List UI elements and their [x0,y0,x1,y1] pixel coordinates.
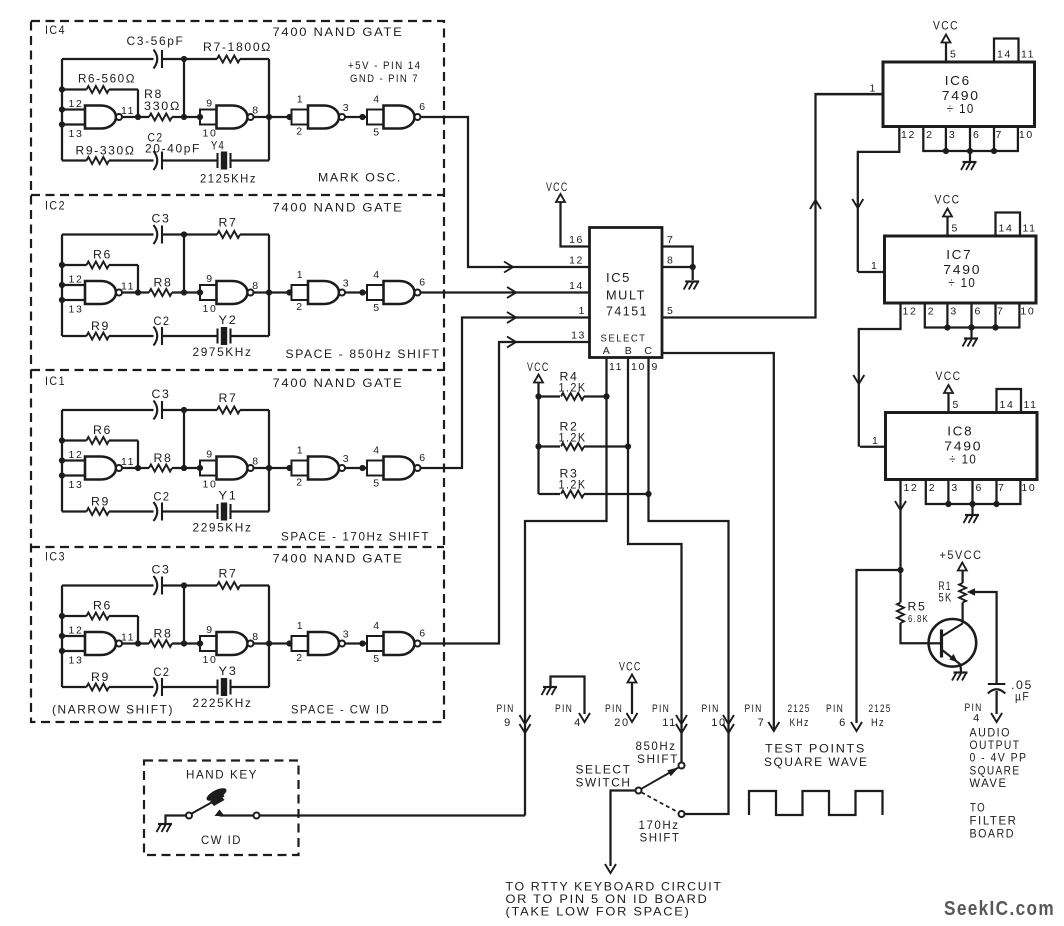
wire IC4 feedback right vertical [268,59,270,161]
hand key fixed contact triangle [215,810,225,817]
crystal IC3 Y3 [216,680,218,695]
wire IC1 pin12 input [62,459,85,461]
svg-text:11: 11 [662,717,677,729]
op IC5 MULT 74151 box [590,228,663,358]
svg-text:÷ 10: ÷ 10 [947,101,975,116]
resistor IC1 R6 [62,439,87,441]
svg-text:9: 9 [652,361,659,373]
svg-text:C2: C2 [154,314,171,328]
resistor R4 1.2K [539,395,561,397]
nand-gate IC3c pins 1,2 -> 3 input bracket [292,636,309,651]
capacitor IC2 C3 [154,225,158,244]
node VCC/R4 junction [535,393,541,399]
node IC3 R6 tap junction [59,613,65,619]
wire IC8 pin12 to PIN 6 test point [857,570,901,723]
svg-text:÷ 10: ÷ 10 [949,452,977,467]
hand key knob [205,786,229,804]
svg-text:10: 10 [203,479,218,491]
resistor IC2 R9 [87,333,110,340]
square wave symbol [749,791,883,815]
svg-text:SeekIC.com: SeekIC.com [944,897,1055,920]
node IC8 output junction [897,567,903,573]
svg-text:7: 7 [667,234,674,246]
svg-text:Hz: Hz [871,717,885,729]
svg-text:20: 20 [614,717,629,729]
svg-text:SQUARE: SQUARE [970,766,1021,778]
wire IC3 R8 to gate2 input [172,642,200,644]
svg-text:9: 9 [206,624,213,636]
svg-text:IC8: IC8 [947,424,973,439]
svg-text:13: 13 [69,128,84,140]
svg-text:9: 9 [504,717,512,729]
svg-text:12: 12 [901,129,916,141]
flow arrow down to IC8 [853,375,864,384]
wire IC2 feedback left vertical [61,235,63,337]
svg-text:8: 8 [252,631,259,643]
svg-text:R6-560Ω: R6-560Ω [78,72,136,86]
capacitor .05 uF [988,683,1006,685]
svg-text:2: 2 [296,477,303,489]
wire IC2 R8 to gate2 input [172,291,200,293]
node IC7 pin 6 bus junction [968,324,974,330]
svg-text:PIN: PIN [826,703,844,715]
crystal IC4 Y4 [216,153,218,168]
svg-text:C2: C2 [154,665,171,679]
svg-text:8: 8 [667,255,674,267]
svg-text:1.2K: 1.2K [559,478,587,492]
wire hand key to PIN 9 line [220,814,526,816]
svg-text:4: 4 [574,717,582,729]
svg-text:3: 3 [950,306,957,318]
svg-text:2225KHz: 2225KHz [193,696,253,710]
wire emitter to ground [959,665,962,673]
node IC1 gate1 output junction [135,465,141,471]
arrow to RTTY keyboard [605,864,616,873]
nand-gate IC3b pins 9,10 -> 8 input bracket [200,636,217,651]
svg-text:12: 12 [69,274,84,286]
wire ground to PIN 4 [551,677,585,715]
node IC3 pin12 junction [59,633,65,639]
flow arrow down to IC7 [852,199,863,208]
svg-text:11: 11 [121,281,135,293]
wire IC2 feedback right vertical [268,235,270,337]
svg-text:A: A [603,345,612,357]
svg-text:4: 4 [373,269,380,281]
resistor IC2 R8 [149,289,172,296]
svg-text:7: 7 [997,306,1004,318]
wire IC5 select row to test point PIN 7 [662,353,774,731]
node IC1 gate2 input junction [197,465,203,471]
wire IC3 top loop middle segment [162,584,217,586]
svg-text:10: 10 [1021,482,1036,494]
nand-gate IC1b pins 9,10 -> 8 input bracket [200,461,217,476]
arrow PIN 7 [768,722,779,731]
node IC3 pin13 junction [59,648,65,654]
node IC7 pin 3 bus junction [944,324,950,330]
nand-gate IC4d body [384,106,415,129]
svg-text:5: 5 [952,223,959,235]
resistor IC4 R7 [217,56,240,63]
wire VCC to PIN 20 [631,683,633,715]
node R2 to line B junction [625,443,631,449]
svg-text:PIN: PIN [652,703,670,715]
wire IC7 pin 12 to IC8 pin 1 [859,303,901,447]
wire IC3 gate1 output [122,642,149,644]
node IC7 pin 7 bus junction [992,324,998,330]
svg-text:850Hz: 850Hz [636,739,677,753]
svg-text:2: 2 [929,482,936,494]
node IC4 pin12 junction [59,106,65,112]
node IC3 gate2 output junction [266,640,272,646]
svg-text:C3: C3 [152,563,171,577]
svg-text:11: 11 [121,456,135,468]
svg-text:11: 11 [1021,49,1035,61]
svg-text:6: 6 [419,452,426,464]
svg-text:+5VCC: +5VCC [940,550,983,562]
node IC1 R8/C3 junction [181,465,187,471]
svg-text:1: 1 [579,305,586,317]
svg-text:PIN: PIN [605,703,623,715]
node R4 to line A junction [603,393,609,399]
svg-text:VCC: VCC [619,662,642,674]
wire IC8 pin 14 to pin 11 loop [997,389,1022,413]
resistor IC1 R7 [217,407,240,414]
svg-text:6.8K: 6.8K [908,614,929,625]
wire IC6 pin 12 to IC7 pin 1 [858,127,900,273]
svg-text:R9: R9 [91,319,110,333]
counter IC8 7490 box [886,413,1038,480]
svg-text:R9: R9 [91,495,110,509]
flow arrow on IC5 pin1 wire [507,312,516,323]
svg-text:14: 14 [999,223,1014,235]
capacitor IC3 C2 [154,678,158,697]
svg-text:(NARROW SHIFT): (NARROW SHIFT) [52,703,174,717]
svg-text:IC6: IC6 [945,73,971,88]
svg-text:2295KHz: 2295KHz [193,521,253,535]
resistor IC4 R6 [62,88,87,90]
svg-text:2125KHz: 2125KHz [200,172,257,186]
wire IC4 C2 to crystal [162,159,218,161]
svg-text:5K: 5K [939,591,953,605]
svg-text:7: 7 [758,717,766,729]
wire IC3 C2 to crystal [162,686,218,688]
wire IC4 R8 to gate2 input [172,116,200,118]
svg-text:R6: R6 [93,423,112,437]
node IC4 gate1 output junction [135,114,141,120]
hand key lever arm [191,796,224,814]
svg-text:Y2: Y2 [219,313,238,327]
node IC2 pin13 junction [59,297,65,303]
svg-text:÷ 10: ÷ 10 [948,275,976,290]
ground for PIN 4 [543,686,557,688]
wire IC1 gate3 output [345,467,367,469]
wire IC2 bottom loop left segment [62,335,87,337]
arrow PIN 6 [851,722,862,731]
svg-text:R8: R8 [154,276,173,290]
wire IC3 output to IC5 pin 13 [421,342,590,644]
svg-text:2125: 2125 [869,703,892,715]
svg-text:3: 3 [951,482,958,494]
svg-text:4: 4 [973,713,981,725]
node R3 to line C junction [645,491,651,497]
svg-text:1: 1 [297,269,304,281]
wire IC7 pin 1 input [858,271,885,273]
svg-text:10: 10 [1020,306,1035,318]
nand-gate IC4b pins 9,10 -> 8 input bracket [200,110,217,125]
svg-text:11: 11 [121,105,135,117]
resistor IC3 R7 [217,582,240,589]
wire IC3 pin12 input [62,635,85,637]
svg-text:PIN: PIN [497,703,515,715]
svg-text:5: 5 [373,478,380,490]
svg-text:6: 6 [419,277,426,289]
wire IC4 top loop right segment [240,58,269,60]
resistor IC1 R9 [87,508,110,515]
svg-text:4: 4 [373,445,380,457]
ground at hand key [158,823,172,825]
svg-text:10: 10 [203,303,218,315]
svg-text:2975KHz: 2975KHz [193,345,253,359]
wire IC2 gate2 output [254,291,292,293]
switch SELECT contact 850Hz [679,763,685,769]
wire IC4 C3 node to gate2 input vertical [183,59,185,117]
svg-text:MARK OSC.: MARK OSC. [318,171,402,185]
svg-text:B: B [625,345,634,357]
wire hand key ground to contact [166,816,187,825]
svg-text:R6: R6 [93,248,112,262]
svg-text:74151: 74151 [606,304,648,319]
svg-text:12: 12 [904,482,919,494]
double arrow on PIN 11 line [676,715,687,724]
wire IC3 feedback left vertical [61,586,63,688]
wire IC4 output to IC5 pin 12 [421,117,590,267]
wire IC3 gate3 output [345,642,367,644]
node IC3 gate3 output junction [359,640,365,646]
wire IC8 bottom pins to ground bus [926,480,1021,505]
node IC1 gate2 output junction [266,465,272,471]
svg-text:3: 3 [343,102,350,114]
wire IC3 top loop left segment [62,584,154,586]
wire IC4 bottom loop left segment [62,159,87,161]
svg-text:9: 9 [206,273,213,285]
transistor Q1 NPN [929,619,977,667]
counter IC6 7490 box [883,62,1035,127]
svg-text:13: 13 [69,304,84,316]
wire IC2 gate3 output [345,291,367,293]
wire IC2 gate1 output [122,291,149,293]
wire R1 to +5VCC [961,570,963,583]
node IC2 gate3 output junction [359,289,365,295]
switch SELECT pole contact [636,788,642,794]
svg-text:2125: 2125 [788,703,811,715]
capacitor IC4 C2 [154,151,158,170]
wire IC1 bottom loop left segment [62,510,87,512]
wire IC5 pin 7 to pin 8 node [662,247,693,268]
svg-text:7: 7 [996,129,1003,141]
svg-text:R7: R7 [219,567,238,581]
svg-text:11: 11 [1023,223,1037,235]
resistor R3 1.2K [539,493,561,495]
svg-text:1.2K: 1.2K [559,381,587,395]
node IC4 C3/R7 junction [181,56,187,62]
svg-text:3: 3 [343,278,350,290]
svg-text:5: 5 [373,302,380,314]
svg-text:0 - 4V PP: 0 - 4V PP [970,753,1028,765]
svg-text:R9: R9 [91,670,110,684]
svg-text:SELECT: SELECT [576,763,632,777]
svg-text:R8: R8 [154,451,173,465]
svg-text:11: 11 [609,361,623,373]
wire IC3 bottom loop mid segment [109,686,154,688]
node IC6 pin 7 bus junction [991,148,997,154]
svg-text:6: 6 [839,717,847,729]
svg-text:12: 12 [903,306,918,318]
node IC3 gate1 output junction [135,640,141,646]
wire IC4 top loop left segment [62,58,154,60]
ground at IC5 pin 8 [685,280,699,282]
crystal IC2 Y2 [216,329,218,344]
svg-text:C2: C2 [154,490,171,504]
wire IC7 pin 14 to pin 11 loop [996,213,1021,237]
nand-gate IC1d pins 4,5 -> 6 input bracket [367,461,384,476]
svg-text:1: 1 [297,620,304,632]
node IC2 C3/R7 junction [181,231,187,237]
wire IC1 top loop middle segment [162,409,217,411]
nand-gate IC3b body [217,632,248,655]
wire IC5 pin 5 output to IC6 pin 1 [662,94,883,318]
svg-text:3: 3 [949,129,956,141]
wire IC1 feedback right vertical [268,410,270,512]
svg-text:SHIFT: SHIFT [640,831,681,845]
ground at transistor emitter [954,671,968,673]
svg-text:1: 1 [870,82,877,94]
svg-text:PIN: PIN [745,703,763,715]
svg-text:IC1: IC1 [45,376,66,388]
wire collector to R1 [961,603,963,624]
svg-text:SWITCH: SWITCH [576,776,632,790]
svg-text:R6: R6 [93,599,112,613]
svg-text:5: 5 [950,49,957,61]
svg-text:6: 6 [419,628,426,640]
svg-text:2: 2 [296,652,303,664]
wire IC3 crystal to right vertical [231,686,270,688]
nand-gate IC3c body [308,632,339,655]
svg-text:10: 10 [203,654,218,666]
nand-gate IC2b body [217,281,248,304]
svg-text:WAVE: WAVE [970,778,1008,790]
wire IC3 bottom loop left segment [62,686,87,688]
svg-text:OUTPUT: OUTPUT [970,740,1021,752]
svg-text:330Ω: 330Ω [144,99,181,113]
svg-text:1.2K: 1.2K [559,431,587,445]
node IC3 gate2 input junction [197,640,203,646]
hand key output contact [254,813,260,819]
svg-text:14: 14 [569,280,584,292]
svg-text:11: 11 [121,632,135,644]
svg-text:7400 NAND GATE: 7400 NAND GATE [273,201,404,215]
svg-text:BOARD: BOARD [970,829,1016,841]
wire VCC to IC7 pin 5 [946,217,948,237]
node IC2 gate3 input junction [286,289,292,295]
svg-text:6: 6 [975,306,982,318]
hand key pivot contact [186,813,192,819]
svg-text:6: 6 [973,129,980,141]
svg-text:R9-330Ω: R9-330Ω [76,144,136,158]
svg-text:SPACE - 850Hz SHIFT: SPACE - 850Hz SHIFT [286,347,441,361]
wire VCC vertical for R4/R2/R3 [537,383,539,495]
wire IC1 top loop left segment [62,409,154,411]
wire IC6 bottom pins to ground bus [923,127,1018,152]
wire IC3 top loop right segment [240,584,269,586]
flow arrow on IC5 pin13 wire [507,337,516,348]
wire IC1 pin13 input [62,474,85,476]
switch blade to 850Hz position [641,768,678,789]
switch contact 170Hz [679,811,685,817]
wire IC1 top loop right segment [240,409,269,411]
wire IC1 bottom loop mid segment [109,510,154,512]
double arrow on PIN 10 line [723,715,734,724]
resistor IC1 R8 [149,465,172,472]
node IC2 pin12 junction [59,282,65,288]
svg-text:PIN: PIN [702,703,720,715]
node IC6 pin 3 bus junction [943,148,949,154]
wire VCC to IC5 pin 16 [561,202,590,247]
arrow PIN 4 [579,713,590,722]
svg-text:IC7: IC7 [946,247,972,262]
svg-text:IC4: IC4 [45,25,66,37]
svg-text:VCC: VCC [935,195,961,207]
wire IC5 pin 8 to ground [662,267,693,280]
node IC2 gate1 output junction [135,289,141,295]
svg-text:+5V - PIN 14: +5V - PIN 14 [348,60,422,72]
resistor IC3 R9 [87,684,110,691]
node IC3 gate3 input junction [286,640,292,646]
switch dashed blade to 170Hz position [641,792,678,812]
svg-text:GND - PIN 7: GND - PIN 7 [350,73,419,85]
svg-text:VCC: VCC [933,21,959,33]
capacitor IC1 C2 [154,502,158,521]
node IC2 R6 tap junction [59,262,65,268]
svg-text:14: 14 [1000,399,1015,411]
wire IC2 bottom loop mid segment [109,335,154,337]
svg-text:3: 3 [343,629,350,641]
svg-text:10: 10 [1019,129,1034,141]
resistor IC4 R9 [87,157,110,164]
ground below IC7 [970,328,972,339]
node IC2 gate2 input junction [197,289,203,295]
svg-text:CW ID: CW ID [201,833,242,847]
nand-gate IC1d body [384,457,415,480]
wire IC4 pin13 input [62,123,85,125]
node IC8 pin 7 bus junction [993,501,999,507]
svg-text:2: 2 [926,129,933,141]
wire select C from IC5 pin 9 to 170Hz contact [649,358,729,815]
wire IC4 feedback left vertical [61,59,63,161]
wire IC2 top loop middle segment [162,233,217,235]
svg-text:8: 8 [252,105,259,117]
dashed box IC4/IC2/IC1/IC3 border frame [31,21,444,722]
wire wiper to coupling capacitor [975,592,997,684]
nand-gate IC2a pins 12,13 -> 11 [85,281,116,304]
nand-gate IC2b pins 9,10 -> 8 input bracket [200,285,217,300]
wire IC1 output to IC5 pin 1 [421,318,590,469]
svg-text:VCC: VCC [546,182,569,194]
svg-text:MULT: MULT [606,288,646,303]
nand-gate IC2d body [384,281,415,304]
nand-gate IC4c pins 1,2 -> 3 input bracket [292,110,309,125]
svg-text:13: 13 [69,479,84,491]
node IC1 R6 tap junction [59,437,65,443]
